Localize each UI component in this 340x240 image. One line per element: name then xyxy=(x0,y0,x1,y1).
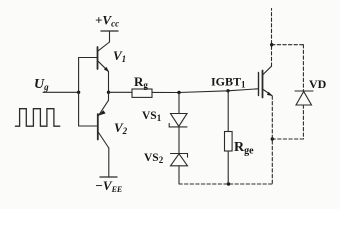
svg-text:VD: VD xyxy=(309,77,327,91)
wire Ug input xyxy=(43,91,79,93)
node emitter VD junction xyxy=(271,137,274,140)
wire VD column lower (dashed) xyxy=(302,105,304,139)
power -VEE terminal xyxy=(100,176,117,178)
wire base bus vertical xyxy=(78,58,80,127)
wire VS2 to bottom rail xyxy=(178,166,180,184)
transistor V2 xyxy=(98,100,109,177)
wire V1 base lead xyxy=(79,57,98,59)
wire bottom rail (dashed) xyxy=(179,183,272,185)
node collector VD branch xyxy=(270,43,273,46)
wire VD column upper (dashed) xyxy=(302,45,304,91)
wire VD bottom branch (dashed) xyxy=(272,138,303,140)
svg-text:V2: V2 xyxy=(114,120,128,136)
IGBT U1 xyxy=(259,66,273,97)
wire IGBT emitter down (dashed) xyxy=(271,96,273,184)
svg-text:V1: V1 xyxy=(113,48,126,64)
svg-text:Rg: Rg xyxy=(134,74,148,90)
zener diode VS2 xyxy=(171,154,188,166)
svg-text:−VEE: −VEE xyxy=(95,178,122,194)
svg-text:Ug: Ug xyxy=(34,77,49,92)
svg-text:Rge: Rge xyxy=(234,140,254,157)
svg-text:+Vcc: +Vcc xyxy=(95,13,119,29)
square wave source symbol xyxy=(15,109,59,127)
node zener tap xyxy=(177,91,180,94)
zener diode VS1 xyxy=(169,114,187,127)
wire Rg to gate xyxy=(152,89,258,93)
svg-text:VS2: VS2 xyxy=(144,152,164,165)
diode VD xyxy=(295,91,313,105)
resistor Rge xyxy=(225,132,233,152)
wire zener column top xyxy=(178,93,180,114)
wire V2 emitter up xyxy=(108,92,110,100)
node bottom rail Rge junction xyxy=(227,182,230,185)
node emitter junction xyxy=(107,91,110,94)
wire VS1 to VS2 xyxy=(178,127,180,154)
wire IGBT collector up (dashed) xyxy=(271,9,273,67)
wire V1 emitter down xyxy=(108,71,110,92)
node Rge tap xyxy=(226,89,229,92)
svg-text:VS1: VS1 xyxy=(142,110,162,123)
wire Rge column bottom xyxy=(227,151,229,184)
wire Rge column top xyxy=(227,91,229,132)
wire branch to VD top (dashed) xyxy=(272,44,304,46)
svg-text:IGBT1: IGBT1 xyxy=(211,75,246,90)
resistor Rg xyxy=(132,89,152,97)
node base-bus junction xyxy=(77,91,80,94)
wire emitter rail to Rg xyxy=(109,91,133,93)
transistor V1 xyxy=(98,31,110,72)
power +Vcc terminal xyxy=(101,30,118,32)
wire V2 base lead xyxy=(79,125,98,127)
